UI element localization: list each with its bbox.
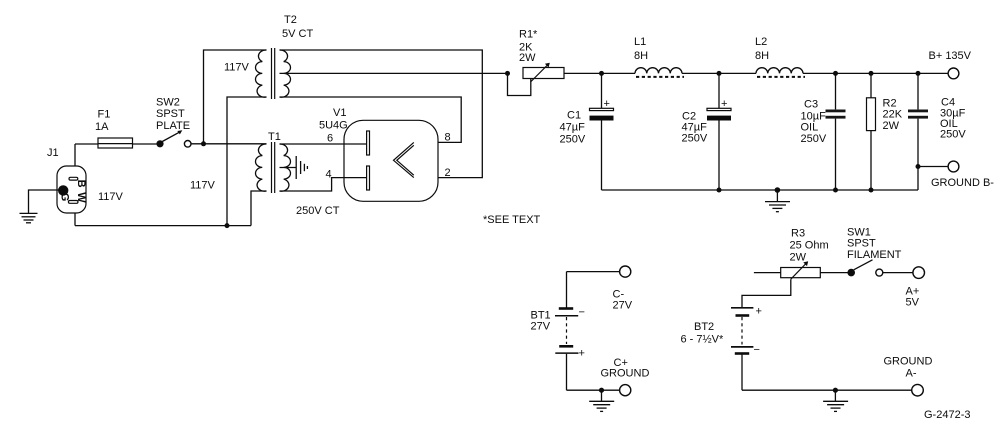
svg-text:W: W — [75, 192, 87, 203]
wire main B+ rail — [564, 72, 635, 74]
svg-text:27V: 27V — [531, 321, 551, 333]
svg-text:2W: 2W — [519, 52, 536, 64]
wire J1 ground lead — [29, 190, 59, 213]
ground (J1) — [20, 213, 38, 222]
svg-text:B: B — [75, 180, 87, 188]
svg-text:1A: 1A — [95, 121, 109, 133]
svg-text:R1*: R1* — [519, 29, 538, 41]
svg-text:27V: 27V — [613, 300, 633, 312]
capacitor C4 — [908, 73, 928, 190]
node junction C3 — [833, 71, 838, 76]
svg-text:117V: 117V — [190, 180, 216, 192]
svg-text:−: − — [579, 307, 585, 319]
transformer T2 secondary — [280, 50, 291, 97]
wire R3 wiper to BT2 — [742, 279, 791, 307]
svg-text:T1: T1 — [268, 131, 281, 143]
switch SW2 — [156, 130, 191, 147]
terminal B+ — [948, 68, 959, 79]
svg-text:5U4G: 5U4G — [319, 120, 348, 132]
svg-text:+: + — [756, 306, 762, 318]
wire SW2 to T1 primary — [191, 143, 267, 145]
svg-text:PLATE: PLATE — [156, 120, 190, 132]
ground (filter) — [765, 190, 790, 212]
svg-text:GROUND B-: GROUND B- — [931, 177, 994, 189]
svg-text:−: − — [754, 344, 760, 356]
svg-text:V1: V1 — [333, 107, 346, 119]
ground (C+) — [589, 390, 614, 411]
node junction C4 — [916, 71, 921, 76]
svg-text:6: 6 — [327, 133, 333, 145]
node junction R1 left — [505, 71, 510, 76]
wire AC hot — [75, 143, 98, 145]
wire T1 secondary CT — [280, 167, 297, 169]
wire J1 top lead — [74, 144, 76, 166]
wire filter bottom rail — [602, 189, 919, 191]
svg-text:6 - 7½V*: 6 - 7½V* — [681, 334, 725, 346]
wire T2 secondary bottom to tube pin 8 — [280, 97, 462, 142]
svg-text:C1: C1 — [567, 110, 581, 122]
svg-text:L2: L2 — [755, 36, 767, 48]
svg-text:8: 8 — [445, 132, 451, 144]
svg-text:A-: A- — [906, 368, 917, 380]
tube filament — [394, 142, 414, 177]
svg-text:R3: R3 — [791, 228, 805, 240]
svg-text:J1: J1 — [47, 147, 59, 159]
svg-text:5V: 5V — [906, 297, 920, 309]
wire fuse to SW2 — [133, 143, 157, 145]
svg-text:22K: 22K — [883, 109, 903, 121]
transformer T1 primary — [255, 144, 266, 191]
transformer T2 core — [272, 48, 275, 99]
resistor R2 — [867, 73, 876, 190]
inductor L2 — [756, 68, 803, 74]
wire up to T2 primary — [204, 50, 267, 144]
svg-text:250V: 250V — [682, 133, 708, 145]
svg-text:B+ 135V: B+ 135V — [929, 50, 972, 62]
svg-text:250V: 250V — [801, 133, 827, 145]
node junction ground B- tap — [916, 164, 921, 169]
capacitor C2 — [707, 73, 731, 190]
svg-text:117V: 117V — [224, 62, 250, 74]
svg-text:250V: 250V — [560, 134, 586, 146]
battery BT2 — [731, 306, 762, 391]
terminal GROUND A- — [912, 384, 924, 396]
svg-text:*SEE TEXT: *SEE TEXT — [483, 214, 541, 226]
node junction C2 — [717, 71, 722, 76]
tube plate (pin 4) — [367, 166, 370, 190]
svg-text:250V CT: 250V CT — [296, 205, 340, 217]
ground (T1 CT, rotated) — [296, 156, 307, 179]
wire J1 bottom lead — [74, 213, 76, 226]
transformer T1 core — [272, 142, 275, 193]
svg-text:+: + — [604, 98, 610, 110]
node junction A- ground — [833, 388, 838, 393]
svg-text:25 Ohm: 25 Ohm — [790, 240, 829, 252]
svg-text:5V CT: 5V CT — [282, 28, 313, 40]
terminal GROUND B- — [948, 161, 959, 172]
node junction R2 — [869, 71, 874, 76]
tube V1 envelope — [344, 120, 438, 201]
wire R3 to SW1 — [820, 272, 847, 274]
svg-text:8H: 8H — [634, 50, 648, 62]
terminal A+ — [913, 267, 925, 279]
node junction ground bottom — [775, 187, 781, 193]
switch SW1 — [847, 260, 882, 277]
rheostat R3 — [754, 261, 820, 279]
node junction C1 — [599, 71, 604, 76]
svg-text:SPST: SPST — [847, 238, 876, 250]
svg-text:8H: 8H — [755, 50, 769, 62]
svg-text:SW2: SW2 — [156, 97, 180, 109]
svg-text:BT2: BT2 — [694, 321, 714, 333]
node junction T2 primary return — [225, 223, 230, 228]
core L1 (dashed) — [636, 76, 684, 78]
wire T2 primary bottom — [227, 97, 267, 226]
wire BT1 bottom to C+ — [567, 389, 620, 391]
svg-text:117V: 117V — [98, 191, 124, 203]
wire to ground B- terminal — [918, 166, 948, 168]
svg-text:F1: F1 — [98, 109, 111, 121]
wire R1 wiper bypass — [508, 73, 531, 95]
node junction C+ ground — [599, 388, 604, 393]
capacitor C3 — [826, 73, 846, 190]
battery BT1 — [555, 272, 585, 391]
svg-text:T2: T2 — [284, 14, 297, 26]
svg-text:L1: L1 — [634, 36, 646, 48]
rheostat R1 — [523, 63, 564, 82]
svg-text:2: 2 — [445, 167, 451, 179]
wire bottom rail (J1 loop) — [75, 225, 251, 227]
tube plate (pin 6) — [367, 131, 370, 155]
svg-text:G: G — [58, 193, 70, 202]
svg-text:OIL: OIL — [801, 122, 819, 134]
capacitor C1 — [590, 73, 614, 190]
transformer T1 secondary — [280, 144, 291, 191]
wire T1 secondary bottom to pin 4 — [280, 178, 367, 191]
svg-text:FILAMENT: FILAMENT — [847, 249, 902, 261]
wire SW1 to A+ — [883, 272, 913, 274]
svg-text:GROUND: GROUND — [601, 368, 650, 380]
svg-text:2W: 2W — [790, 252, 807, 264]
svg-text:2W: 2W — [883, 120, 900, 132]
node junction C2 bottom — [717, 188, 722, 193]
svg-text:250V: 250V — [940, 129, 966, 141]
connector J1 — [57, 166, 87, 213]
terminal C+ — [620, 385, 631, 396]
svg-text:GROUND: GROUND — [884, 356, 933, 368]
wire T2 secondary CT to R1 — [280, 72, 508, 74]
wire BT1 top to C- — [567, 271, 620, 273]
node junction R2 bottom — [869, 188, 874, 193]
svg-text:G-2472-3: G-2472-3 — [924, 409, 970, 421]
ground (A-) — [823, 390, 848, 411]
wire T1 primary bottom — [251, 191, 267, 226]
svg-text:+: + — [579, 348, 585, 360]
core L2 (dashed) — [757, 76, 805, 78]
svg-text:SPST: SPST — [156, 108, 185, 120]
terminal C- — [620, 266, 631, 277]
node junction C3 bottom — [833, 188, 838, 193]
inductor L1 — [635, 68, 682, 74]
node junction SW2/T2 — [201, 141, 206, 146]
fuse F1 — [98, 138, 133, 148]
svg-text:4: 4 — [326, 169, 332, 181]
wire T2 secondary top to tube pin 2 — [280, 50, 483, 178]
wire BT2 bottom to A- — [742, 389, 912, 391]
svg-text:C3: C3 — [804, 99, 818, 111]
svg-text:47µF: 47µF — [560, 122, 586, 134]
svg-text:+: + — [721, 98, 727, 110]
transformer T2 primary — [255, 50, 266, 97]
wire T1 secondary top to pin 6 — [280, 143, 367, 145]
